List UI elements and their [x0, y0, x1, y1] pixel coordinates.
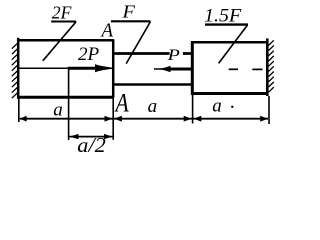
bar segment 2 (area F) top edge — [113, 52, 192, 55]
extension line below right wall — [268, 96, 270, 124]
svg-text:a: a — [53, 100, 63, 121]
right wall hatching — [268, 40, 273, 92]
svg-text:A: A — [114, 88, 129, 117]
svg-text:1.5F: 1.5F — [204, 6, 242, 27]
dim arrow left at wall — [20, 116, 27, 122]
extension line below left wall — [18, 99, 20, 122]
label 1.5F with leader — [204, 6, 248, 64]
svg-text:a/2: a/2 — [77, 133, 106, 157]
dim arrow pair at x=113 — [105, 116, 113, 122]
svg-text:P: P — [166, 47, 180, 64]
dim arrow pair at x=192 — [184, 116, 192, 122]
dim arrow right at wall — [260, 116, 268, 122]
bar segment 3 bottom edge — [191, 92, 268, 95]
extension line below segment3 left edge — [192, 95, 194, 124]
bar segment 3 top edge — [191, 41, 268, 44]
bar segment 2 bottom edge — [113, 83, 192, 86]
bar segment 1 (area 2F) top edge — [17, 39, 114, 42]
svg-text:a: a — [148, 96, 158, 117]
svg-text:A: A — [100, 19, 114, 41]
stray dot — [231, 106, 233, 108]
svg-text:2F: 2F — [52, 3, 72, 23]
label 2F with leader — [43, 3, 76, 61]
svg-text:2P: 2P — [78, 45, 99, 65]
bar segment 1 right edge — [112, 40, 115, 98]
label F with leader — [111, 2, 151, 64]
svg-text:a: a — [212, 96, 222, 117]
centerline dashes — [229, 68, 263, 70]
left fixed wall line — [17, 38, 20, 99]
svg-text:F: F — [121, 2, 135, 22]
force arrow 2P — [69, 64, 111, 72]
force arrow P — [154, 66, 192, 73]
bar segment 3 (area 1.5F) left edge — [191, 41, 194, 95]
force 2P action line — [20, 67, 113, 69]
section line at a/2 — [68, 67, 70, 140]
right fixed wall line — [266, 39, 269, 97]
dimension line row 2 (a/2) — [69, 136, 112, 138]
bar segment 1 bottom edge — [17, 96, 114, 99]
dimension line row 1 — [20, 118, 268, 120]
extension line below segment1 right edge — [112, 98, 114, 140]
left wall hatching — [12, 44, 17, 99]
label P (with gap in top edge) — [166, 47, 182, 64]
